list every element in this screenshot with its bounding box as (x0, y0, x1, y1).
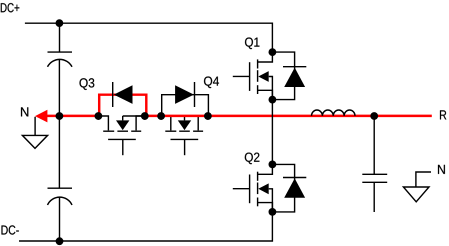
transistor Q4 body riser (184, 116, 186, 120)
capacitor upper DC-link cap top plate (48, 51, 73, 53)
diode Q3 antiparallel diode cathode bar (112, 82, 114, 107)
ground neutral symbol left triangle (22, 135, 47, 148)
diode Q4 antiparallel diode triangle (175, 85, 194, 104)
node Q4 left terminal (157, 112, 165, 120)
wire Q3 body to right node (123, 115, 145, 117)
wire left rail middle segment (58, 59, 60, 116)
wire Q4 body to right node (185, 115, 208, 117)
wire Q2 body-diode loop (272, 164, 294, 212)
transistor Q3 right lead (136, 116, 145, 130)
transistor Q1 bottom channel bar (257, 85, 259, 94)
diode Q2 body diode triangle (284, 178, 305, 197)
transistor Q4 right lead (198, 116, 208, 130)
capacitor output filter cap plates (362, 174, 387, 182)
node junction DC+ / left rail (56, 19, 64, 27)
transistor Q2 middle channel bar (257, 183, 259, 195)
transistor Q4 gate lead (184, 139, 186, 155)
wire output capacitor bottom lead (373, 182, 375, 212)
transistor Q1 top channel bar (257, 59, 259, 68)
diode Q2 body diode cathode bar (283, 177, 306, 179)
ground neutral symbol left lead (34, 117, 36, 136)
transistor Q4 body arrow (178, 120, 191, 130)
transistor Q1 middle channel bar (257, 70, 259, 82)
wire Q1 body-diode loop (272, 52, 294, 100)
transistor Q2 gate plate (249, 175, 251, 204)
wire left rail lower segment (58, 116, 60, 188)
transistor Q2 bottom channel bar (257, 198, 259, 207)
diode Q1 body diode triangle (284, 68, 305, 87)
label N right (438, 165, 445, 174)
wire output capacitor top lead (373, 116, 375, 174)
transistor Q1 drain lead (258, 52, 273, 62)
wire DC+ rail (25, 23, 273, 52)
node Q1 source (269, 96, 277, 104)
diode Q4 antiparallel diode cathode bar (194, 82, 196, 107)
wire Q4 diode loop (162, 95, 209, 116)
wire left rail top segment (59, 23, 61, 52)
transistor Q4 channel ticks (165, 130, 203, 132)
transistor Q3 channel ticks (103, 130, 141, 132)
transistor Q1 source lead (258, 90, 273, 99)
transistor Q3 gate lead (122, 139, 124, 155)
label R (440, 110, 446, 119)
transistor Q2 body arrow (258, 183, 268, 194)
diode Q3 antiparallel diode triangle (114, 85, 133, 104)
transistor Q2 top channel bar (257, 172, 259, 181)
wire DC- rail (19, 212, 272, 241)
capacitor lower DC-link cap curved plate (48, 197, 73, 205)
transistor Q3 body riser (122, 116, 124, 120)
label Q4 (204, 76, 219, 88)
transistor Q3 body arrow (116, 120, 129, 130)
label Q2 (245, 153, 260, 165)
node Q3 left terminal (95, 112, 103, 120)
transistor Q2 drain lead (258, 164, 273, 174)
node junction midpoint rail / N line (56, 112, 64, 120)
transistor Q1 gate plate (249, 62, 251, 91)
node Q2 drain (269, 161, 277, 169)
transistor Q2 body connection wire (269, 189, 273, 212)
node output capacitor tap (370, 112, 378, 120)
ground neutral symbol right triangle (403, 187, 429, 202)
transistor Q2 gate lead (233, 188, 250, 190)
label Q1 (245, 37, 259, 49)
label Q3 (80, 78, 95, 90)
diode Q1 body diode cathode bar (283, 66, 306, 68)
capacitor upper DC-link cap curved plate (48, 59, 73, 66)
ground neutral symbol right lead (416, 172, 431, 187)
transistor Q1 gate lead (233, 75, 250, 77)
label DC- (2, 225, 19, 234)
node current direction arrowhead at N (35, 110, 47, 123)
transistor Q2 source lead (258, 203, 273, 212)
node Q4 right terminal (204, 112, 212, 120)
transistor Q1 body connection wire (269, 77, 273, 100)
wire Q1 source to Q2 drain (271, 100, 273, 165)
capacitor lower DC-link cap top plate (48, 187, 73, 189)
transistor Q3 gate plate (108, 138, 136, 140)
node Q1 drain (269, 48, 277, 56)
node Q2 source (269, 208, 277, 216)
transistor Q4 gate plate (171, 138, 199, 140)
wire highlighted current path N to R (red) (47, 95, 432, 116)
transistor Q3 left lead (98, 116, 108, 130)
transistor Q1 body arrow (258, 71, 268, 82)
transistor Q4 left lead (161, 116, 171, 130)
inductor output filter inductor (312, 110, 356, 116)
label DC+ (1, 3, 20, 12)
node junction DC- / left rail (56, 237, 64, 245)
label N left (21, 107, 28, 116)
node Q3 right terminal (141, 112, 149, 120)
wire left rail bottom segment (59, 197, 61, 241)
